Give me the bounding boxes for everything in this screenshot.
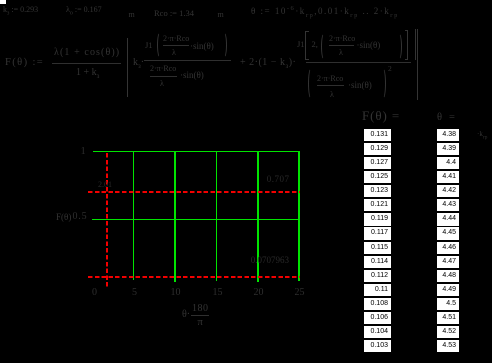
plus term: [240, 58, 296, 70]
fraction 3 denominator: [308, 68, 313, 99]
line 1 definitions: [3, 6, 38, 17]
fraction 3 numerator: [297, 40, 305, 49]
table headers: [362, 109, 400, 122]
plot green grid: [93, 151, 299, 153]
fraction 3 main bar: [306, 62, 411, 63]
white corner artifact: [0, 0, 6, 4]
abs opening bar: [127, 38, 128, 97]
axis titles: [56, 213, 71, 222]
left table: [0, 0, 492, 1]
formula F(theta) :=: [5, 58, 44, 69]
fraction 2 main bar: [144, 60, 231, 61]
fraction 1: [54, 48, 120, 58]
plot tick labels: [81, 147, 86, 157]
closing bars: [415, 29, 416, 60]
fraction 2 denominator: [150, 65, 176, 73]
right table: [0, 0, 492, 1]
red dashed markers: [88, 191, 300, 193]
marker labels: [98, 181, 112, 189]
k coefficient: [133, 58, 144, 70]
fraction 2 numerator: J1( 2 pi Rco / lambda * sin(t) ): [145, 41, 153, 50]
